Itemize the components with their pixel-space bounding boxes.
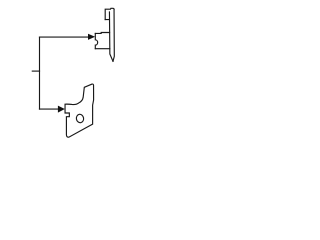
clip block bottom edge bbox=[95, 48, 109, 50]
arrowhead bottom bbox=[58, 106, 65, 113]
patent-style figure: pointer wires with arrows to two sheet-metal parts bbox=[0, 0, 150, 150]
wire top horizontal bbox=[40, 36, 89, 38]
clip right edge to pointed tip bbox=[113, 9, 114, 61]
hole in bracket bbox=[76, 114, 85, 124]
clip block top edge with step bbox=[95, 32, 109, 35]
node tick bbox=[32, 70, 39, 72]
clip flag bottom bbox=[105, 19, 109, 21]
clip inner/left bar edge to tip bbox=[109, 12, 113, 61]
bracket B1 bottom outline bbox=[65, 84, 94, 137]
wire bottom horizontal bbox=[40, 108, 59, 110]
clip U1 top outline (head with flag) bbox=[105, 8, 114, 19]
wire left vertical bbox=[39, 37, 41, 109]
arrowhead top bbox=[88, 34, 95, 40]
clip block left edge with wave bbox=[95, 33, 97, 48]
